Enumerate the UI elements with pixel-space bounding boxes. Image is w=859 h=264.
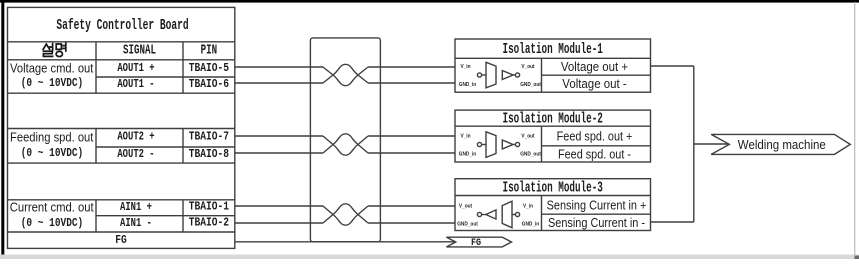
wire AOUT1- right segment: [368, 82, 455, 84]
twisted pair AOUT1 crossover: [323, 64, 368, 85]
column header 설명 (description) drawn glyphs: [43, 43, 66, 56]
wire AOUT2- left segment: [235, 152, 323, 154]
svg-text:Current cmd. out: Current cmd. out: [10, 200, 95, 215]
svg-text:(0 ~ 10VDC): (0 ~ 10VDC): [21, 147, 83, 160]
svg-text:Voltage cmd. out: Voltage cmd. out: [10, 61, 94, 76]
svg-text:AOUT1 +: AOUT1 +: [117, 62, 154, 76]
svg-text:Isolation Module-3: Isolation Module-3: [503, 179, 603, 196]
twisted pair AOUT2 crossover: [323, 134, 368, 155]
svg-text:Voltage out -: Voltage out -: [562, 76, 626, 91]
welding machine connector banner: [711, 134, 850, 154]
svg-text:AIN1 -: AIN1 -: [120, 217, 152, 231]
svg-text:V_in: V_in: [460, 133, 470, 139]
svg-text:TBAIO-5: TBAIO-5: [189, 62, 229, 75]
svg-text:TBAIO-6: TBAIO-6: [189, 78, 229, 91]
svg-text:FG: FG: [471, 236, 481, 248]
svg-text:GND_out: GND_out: [520, 82, 541, 88]
svg-text:V_out: V_out: [459, 203, 472, 209]
svg-text:GND_in: GND_in: [459, 151, 476, 157]
svg-text:V_out: V_out: [521, 133, 534, 139]
Safety Controller Board table outline: [8, 7, 235, 248]
isolation amplifier symbol inside U1: [477, 62, 519, 88]
isolation amplifier symbol inside U3: [477, 201, 519, 228]
svg-text:TBAIO-8: TBAIO-8: [189, 148, 229, 161]
wire from U1 Voltage out to bus: [651, 65, 694, 67]
wire AOUT2- right segment: [368, 152, 455, 154]
wire AOUT1- left segment: [235, 82, 323, 84]
svg-text:GND_out: GND_out: [520, 151, 541, 157]
svg-text:GND_out: GND_out: [457, 221, 478, 227]
wire AOUT2+ left segment: [235, 135, 323, 137]
wire AIN1+ right segment: [368, 205, 455, 207]
svg-text:V_in: V_in: [460, 64, 470, 70]
svg-text:Welding machine: Welding machine: [738, 137, 826, 152]
svg-text:(0 ~ 10VDC): (0 ~ 10VDC): [21, 77, 83, 90]
svg-text:Isolation Module-2: Isolation Module-2: [503, 110, 603, 127]
FG net flag banner: [447, 237, 512, 247]
svg-text:PIN: PIN: [201, 43, 218, 58]
wire AOUT2+ right segment: [368, 135, 455, 137]
wire AIN1+ left segment: [235, 205, 323, 207]
svg-text:Feed spd. out -: Feed spd. out -: [558, 147, 631, 162]
svg-text:SIGNAL: SIGNAL: [123, 43, 156, 58]
svg-text:Safety Controller Board: Safety Controller Board: [56, 17, 188, 34]
svg-text:Sensing Current in -: Sensing Current in -: [548, 215, 645, 230]
wire from bus to U3 Sensing Current in: [651, 221, 694, 223]
svg-text:TBAIO-1: TBAIO-1: [189, 201, 230, 214]
twisted pair cable shield box: [310, 38, 380, 242]
svg-text:AOUT2 -: AOUT2 -: [117, 148, 154, 162]
svg-text:AIN1 +: AIN1 +: [120, 201, 152, 215]
isolation amplifier symbol inside U2: [477, 132, 519, 158]
wire AOUT1+ left segment: [235, 66, 323, 68]
svg-text:FG: FG: [115, 234, 127, 247]
FG net wire from table to FG flag: [235, 241, 456, 243]
svg-text:Feed spd. out +: Feed spd. out +: [557, 129, 633, 144]
wire AIN1- left segment: [235, 222, 323, 224]
twisted pair AIN1 crossover: [323, 204, 368, 225]
wire AIN1- right segment: [368, 222, 455, 224]
svg-text:Feeding spd. out: Feeding spd. out: [10, 130, 94, 145]
vertical bus wire: [693, 66, 695, 222]
op-amp isolation module U1 box: [455, 39, 651, 92]
svg-text:TBAIO-2: TBAIO-2: [189, 217, 229, 230]
svg-text:V_in: V_in: [523, 203, 533, 209]
wire from bus to welding machine connector: [694, 143, 730, 145]
wire AOUT1+ right segment: [368, 66, 455, 68]
op-amp isolation module U3 box: [455, 179, 651, 231]
svg-text:TBAIO-7: TBAIO-7: [189, 131, 229, 144]
svg-text:AOUT2 +: AOUT2 +: [117, 131, 154, 145]
svg-text:AOUT1 -: AOUT1 -: [117, 78, 154, 92]
svg-text:Voltage out +: Voltage out +: [561, 60, 628, 75]
svg-text:Sensing Current in +: Sensing Current in +: [547, 197, 647, 212]
op-amp isolation module U2 box: [455, 110, 651, 162]
svg-text:Isolation Module-1: Isolation Module-1: [503, 41, 603, 58]
svg-text:GND_in: GND_in: [522, 221, 539, 227]
svg-text:GND_in: GND_in: [459, 82, 476, 88]
svg-text:V_out: V_out: [521, 64, 534, 70]
svg-text:(0 ~ 10VDC): (0 ~ 10VDC): [21, 217, 83, 230]
